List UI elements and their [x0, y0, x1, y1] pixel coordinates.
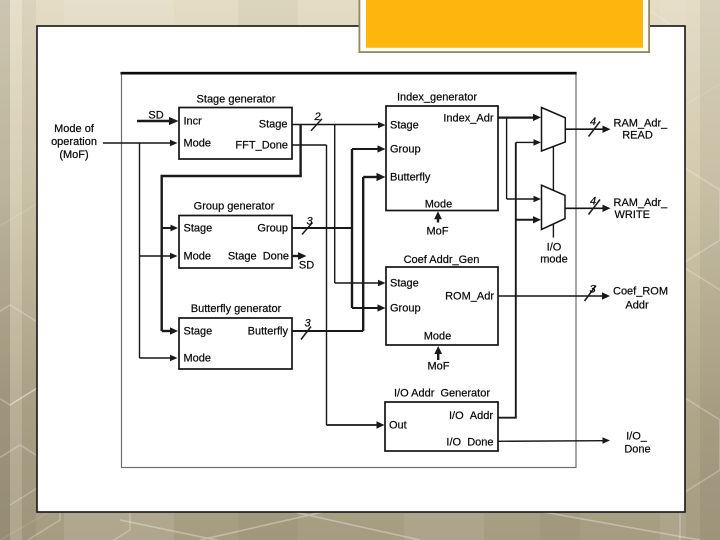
svg-text:Out: Out — [389, 420, 407, 432]
arrowhead MoF up Index — [434, 211, 442, 219]
arrowhead SD output — [298, 252, 307, 260]
svg-text:ROM_Adr: ROM_Adr — [445, 291, 494, 303]
svg-text:Mode: Mode — [184, 353, 212, 365]
svg-text:Mode: Mode — [425, 199, 453, 211]
wire to mux2 input2 — [516, 219, 534, 221]
arrowhead to Coef Group — [378, 304, 386, 311]
label Coef_ROM Addr — [613, 286, 668, 312]
svg-text:3: 3 — [306, 216, 313, 228]
wire SD output shaft — [292, 255, 300, 257]
wire mux1 output — [565, 128, 604, 130]
wire Index_Adr output — [498, 116, 534, 118]
svg-text:4: 4 — [590, 196, 596, 208]
label RAM_Adr_WRITE — [614, 197, 669, 221]
arrowhead IO Done — [603, 437, 611, 444]
svg-text:Stage generator: Stage generator — [197, 94, 276, 106]
arrowhead to Coef Stage — [378, 280, 386, 287]
slash 2 on Stage bus — [311, 119, 322, 131]
block IO Addr Generator — [385, 388, 498, 452]
svg-text:Butterfly generator: Butterfly generator — [191, 303, 282, 315]
wire MoF arrow Coef shaft — [437, 353, 439, 361]
block Stage generator — [179, 94, 292, 160]
svg-text:2: 2 — [313, 111, 320, 123]
arrowhead mux1 input1 — [533, 114, 541, 121]
svg-text:Mode: Mode — [184, 138, 212, 150]
arrowhead to Butterfly Mode — [170, 355, 178, 362]
wire feedback to Butterfly Stage — [162, 330, 171, 332]
wire MoF input horizontal — [103, 142, 172, 144]
wire IO_Addr output — [498, 142, 516, 417]
banner orange fill — [366, 0, 643, 48]
wire ROM_Adr output — [498, 295, 603, 297]
wire MoF vertical branch — [139, 143, 141, 358]
wire Stage output to Index — [292, 124, 380, 126]
wire IO Done output — [498, 440, 604, 443]
wire Index_Adr branch down — [506, 118, 508, 199]
wire to Index Butterfly — [363, 176, 377, 178]
svg-text:(MoF): (MoF) — [59, 149, 88, 161]
svg-text:4: 4 — [590, 116, 596, 128]
svg-text:Group generator: Group generator — [194, 201, 275, 213]
arrowhead to Index Group — [378, 145, 386, 152]
arrowhead to Butterfly Stage — [170, 327, 178, 334]
wire Stage branch down to Coef — [334, 125, 336, 284]
svg-text:Done: Done — [624, 444, 650, 456]
svg-text:I/O Addr: I/O Addr — [449, 410, 493, 422]
arrowhead RAM WRITE — [603, 205, 611, 212]
svg-text:Stage: Stage — [390, 120, 419, 132]
arrowhead mux2 input2 — [533, 216, 541, 223]
svg-text:RAM_Adr_: RAM_Adr_ — [614, 197, 669, 209]
svg-text:Stage: Stage — [184, 223, 213, 235]
svg-text:mode: mode — [540, 254, 568, 266]
wire mux2 output — [565, 207, 604, 209]
svg-text:SD: SD — [148, 110, 163, 122]
wire feedback to Group Stage — [162, 227, 172, 229]
arrowhead MoF to Stage Mode — [170, 140, 178, 147]
arrowhead RAM READ — [603, 126, 611, 133]
svg-text:Mode: Mode — [424, 331, 452, 343]
svg-text:I/O: I/O — [547, 242, 562, 254]
wire to IO Out — [327, 424, 378, 426]
arrowhead mux2 input1 — [534, 196, 542, 203]
svg-text:I/O Addr Generator: I/O Addr Generator — [394, 388, 490, 400]
svg-text:Coef Addr_Gen: Coef Addr_Gen — [404, 254, 480, 266]
svg-text:MoF: MoF — [427, 226, 449, 238]
svg-text:Incr: Incr — [184, 116, 203, 128]
wire Stage branch to Coef Stage — [335, 282, 379, 284]
arrowhead to Group Stage — [171, 225, 179, 232]
wire Group output — [292, 227, 352, 229]
slash 3 on ROM bus — [585, 286, 597, 302]
svg-text:Coef_ROM: Coef_ROM — [613, 286, 668, 298]
block Coef Addr_Gen — [386, 254, 498, 345]
svg-text:operation: operation — [51, 136, 97, 148]
arrowhead SD input — [169, 117, 179, 125]
label Mode of operation (MoF) — [51, 123, 97, 161]
svg-text:I/O Done: I/O Done — [446, 437, 493, 449]
mux 1 (read address) — [542, 108, 566, 152]
arrowhead to Index Butterfly — [377, 173, 386, 181]
svg-text:Group: Group — [257, 223, 288, 235]
banner white frame — [360, 0, 648, 51]
svg-text:FFT_Done: FFT_Done — [235, 140, 288, 152]
banner outer border — [359, 0, 651, 53]
svg-text:Stage: Stage — [184, 326, 213, 338]
svg-text:3: 3 — [589, 284, 596, 296]
arrowhead to IO Out — [377, 421, 385, 428]
diagram outer box top edge — [121, 72, 577, 75]
svg-text:Stage Done: Stage Done — [228, 251, 289, 263]
slash 3 on Butterfly bus — [301, 327, 311, 340]
arrowheads — [169, 114, 611, 444]
arrowhead to Index Stage — [378, 122, 386, 129]
wire to Index Group — [352, 148, 379, 150]
svg-text:SD: SD — [299, 260, 314, 272]
svg-text:MoF: MoF — [428, 361, 450, 373]
wire FFT_Done out — [292, 144, 327, 146]
arrowhead MoF up Coef — [434, 346, 442, 354]
diagram outer box — [122, 73, 577, 468]
arrowhead mux1 input2 — [534, 139, 542, 146]
wire to mux1 input2 — [516, 141, 535, 143]
svg-text:READ: READ — [622, 130, 653, 142]
svg-text:Stage: Stage — [259, 119, 288, 131]
svg-text:I/O_: I/O_ — [626, 431, 648, 443]
wire Group vertical trunk — [351, 149, 353, 308]
wire select between muxes — [552, 147, 554, 191]
wire Butterfly vertical trunk — [362, 177, 364, 331]
wire to mux2 input1 — [507, 198, 535, 200]
block Index_generator — [386, 92, 498, 211]
label I/O mode — [540, 242, 568, 266]
wire MoF to Group Mode — [140, 255, 172, 257]
svg-text:Addr: Addr — [625, 300, 649, 312]
wire SD input arrow shaft — [137, 120, 170, 123]
svg-text:3: 3 — [304, 318, 311, 330]
arrowhead Coef ROM — [602, 292, 610, 299]
svg-text:RAM_Adr_: RAM_Adr_ — [614, 118, 669, 130]
slash 3 on Group bus — [302, 223, 313, 235]
label IO_Done — [624, 431, 650, 456]
wire FFT_Done vertical — [326, 145, 328, 425]
svg-text:Group: Group — [390, 303, 421, 315]
slash 4 on WRITE bus — [589, 200, 601, 215]
block Group generator — [179, 201, 292, 269]
wire Butterfly output — [292, 330, 363, 332]
label RAM_Adr_READ — [614, 118, 669, 142]
wire select below mux2 — [552, 224, 554, 238]
wire Stage feedback down — [162, 125, 301, 332]
svg-text:Mode of: Mode of — [54, 123, 95, 135]
wire MoF to Butterfly Mode — [140, 357, 172, 359]
block Butterfly generator — [179, 303, 292, 369]
svg-text:Index_generator: Index_generator — [397, 92, 477, 104]
svg-text:Butterfly: Butterfly — [390, 172, 431, 184]
arrowhead to Group Mode — [170, 253, 178, 260]
svg-text:Mode: Mode — [184, 251, 212, 263]
mux 2 (write address) — [542, 185, 566, 229]
svg-text:Group: Group — [390, 144, 421, 156]
svg-text:Butterfly: Butterfly — [248, 326, 289, 338]
wire to Coef Group — [352, 307, 379, 309]
svg-text:Stage: Stage — [390, 278, 419, 290]
svg-text:WRITE: WRITE — [615, 209, 650, 221]
slash 4 on READ bus — [589, 122, 601, 137]
wire MoF arrow Index shaft — [437, 218, 439, 223]
svg-text:Index_Adr: Index_Adr — [443, 113, 493, 125]
